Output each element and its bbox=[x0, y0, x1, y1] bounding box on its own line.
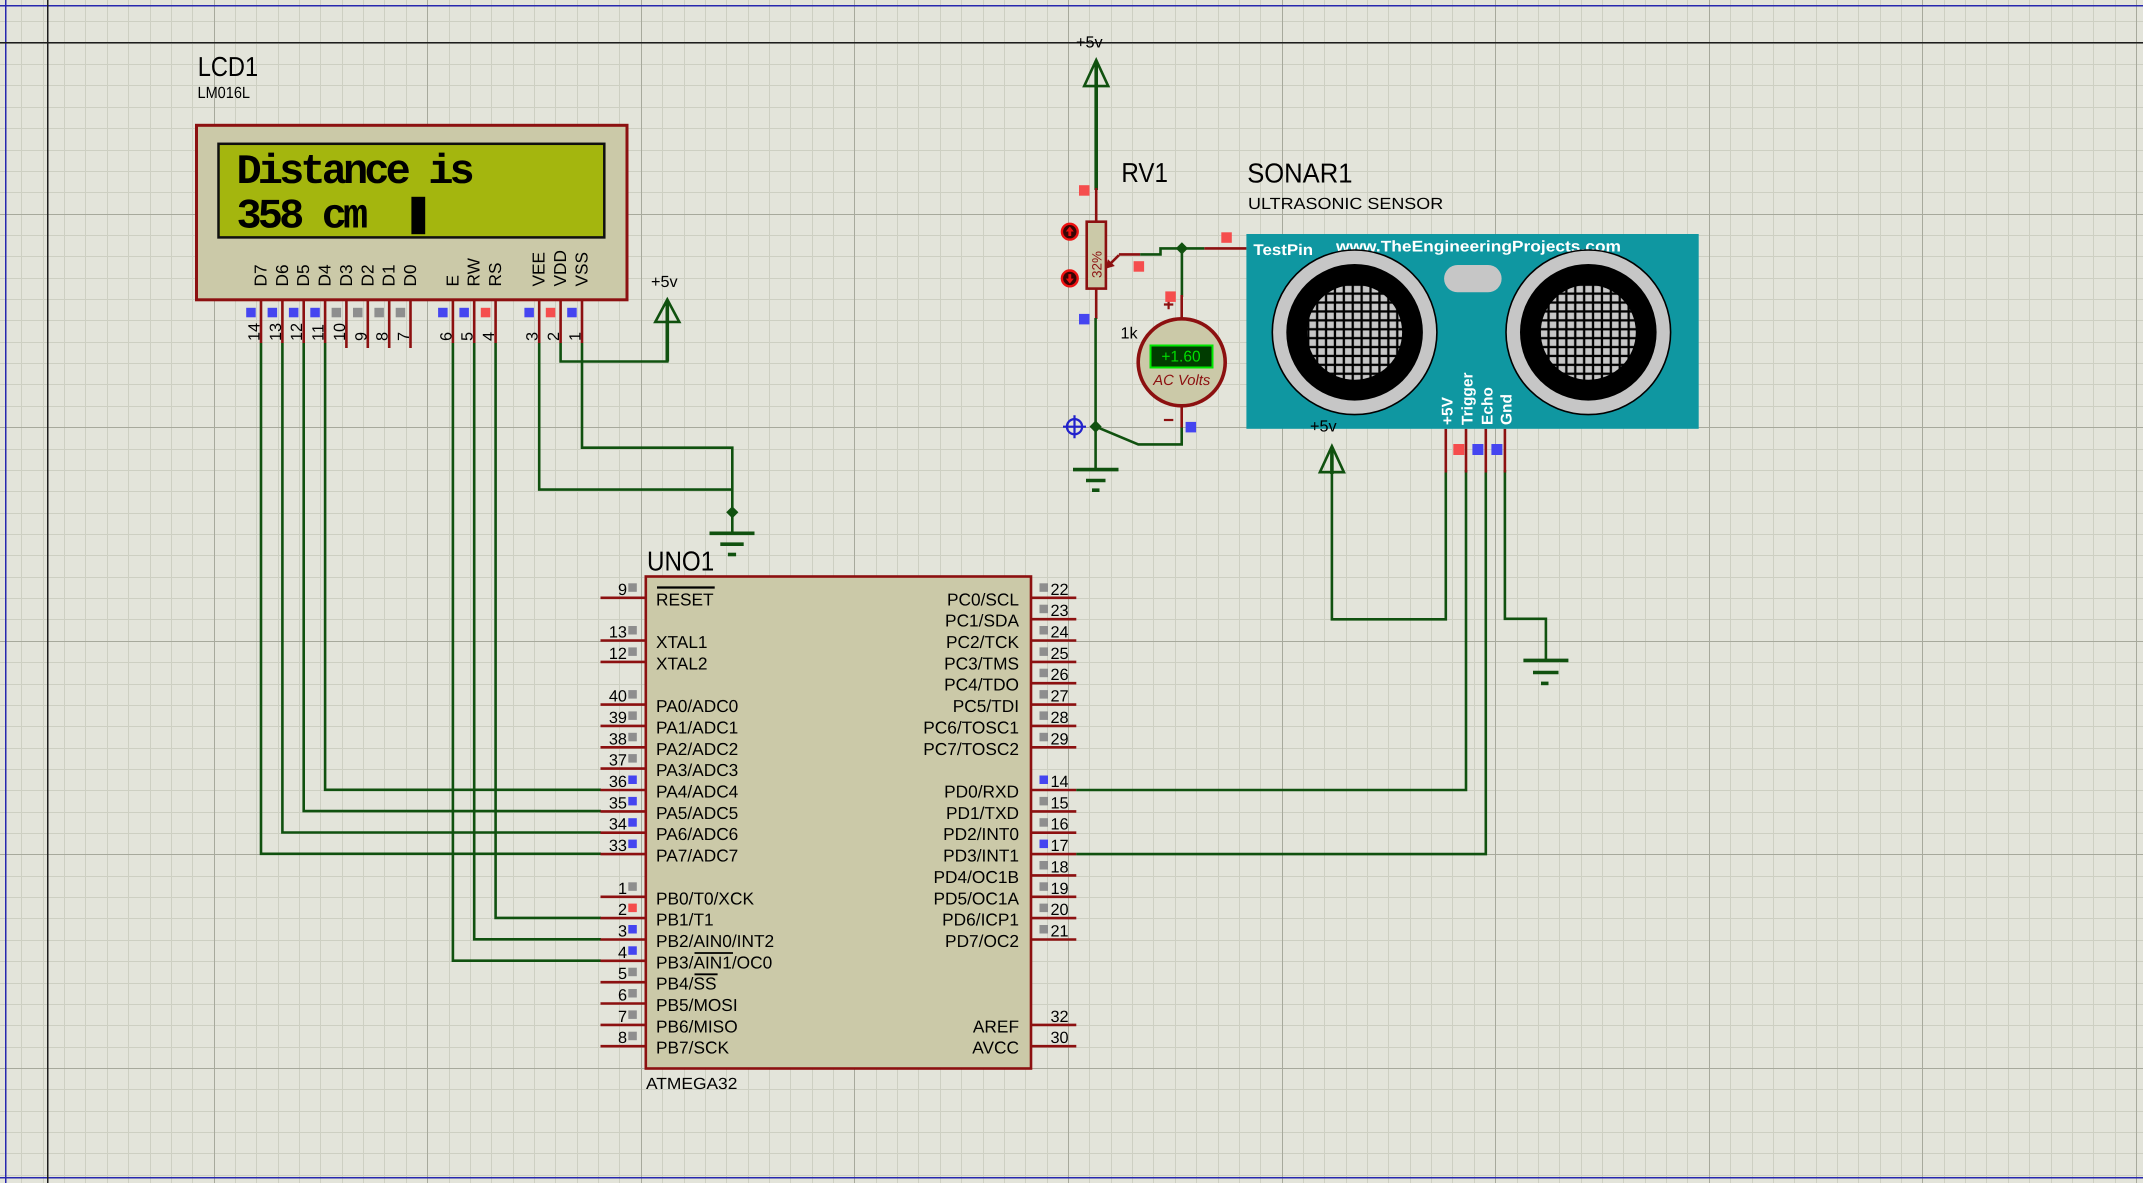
svg-text:2: 2 bbox=[545, 332, 563, 341]
svg-text:PC4/TDO: PC4/TDO bbox=[944, 675, 1019, 695]
RV1 wiper arrow bbox=[1105, 254, 1140, 269]
ground (LCD net) bbox=[710, 533, 755, 554]
indicator square RV1 bottom bbox=[1079, 314, 1090, 325]
svg-text:1k: 1k bbox=[1121, 325, 1139, 343]
svg-text:1: 1 bbox=[567, 332, 585, 341]
svg-text:PC5/TDI: PC5/TDI bbox=[953, 696, 1019, 716]
TestPin stub bbox=[1204, 247, 1246, 250]
svg-text:20: 20 bbox=[1051, 901, 1069, 919]
sonar pin stubs bbox=[1446, 429, 1505, 473]
voltmeter body bbox=[1138, 319, 1225, 406]
svg-text:27: 27 bbox=[1051, 688, 1069, 706]
svg-text:9: 9 bbox=[352, 332, 370, 341]
sheet border blue lines bbox=[5, 0, 7, 1183]
svg-text:PC2/TCK: PC2/TCK bbox=[946, 632, 1019, 652]
indicator square Echo bbox=[1472, 444, 1483, 455]
svg-text:11: 11 bbox=[310, 324, 328, 341]
svg-text:2: 2 bbox=[618, 901, 627, 919]
svg-text:PD4/OC1B: PD4/OC1B bbox=[934, 867, 1019, 887]
voltmeter display bbox=[1151, 346, 1213, 368]
sonar pin labels bbox=[1439, 372, 1515, 425]
svg-text:3: 3 bbox=[618, 923, 627, 941]
svg-text:7: 7 bbox=[618, 1008, 627, 1026]
svg-text:12: 12 bbox=[288, 323, 306, 341]
right pin numbers bbox=[1051, 581, 1069, 1047]
svg-text:PC7/TOSC2: PC7/TOSC2 bbox=[923, 739, 1019, 759]
wire sonar Echo to PD3/INT1 bbox=[1076, 470, 1486, 854]
svg-text:D2: D2 bbox=[357, 264, 377, 286]
RV1 down adjust button bbox=[1062, 271, 1078, 287]
right pin names bbox=[923, 589, 1019, 1057]
svg-text:PB1/T1: PB1/T1 bbox=[656, 910, 714, 930]
svg-text:+1.60: +1.60 bbox=[1161, 349, 1201, 366]
svg-text:E: E bbox=[442, 275, 462, 287]
left transducer bbox=[1272, 250, 1437, 415]
svg-text:Trigger: Trigger bbox=[1460, 372, 1477, 425]
svg-text:VEE: VEE bbox=[529, 252, 549, 287]
microcontroller UNO1 body (ATMEGA32) bbox=[646, 577, 1031, 1069]
svg-text:D7: D7 bbox=[251, 264, 271, 286]
svg-text:5: 5 bbox=[459, 332, 477, 341]
svg-text:PD6/ICP1: PD6/ICP1 bbox=[942, 910, 1019, 930]
svg-text:XTAL1: XTAL1 bbox=[656, 632, 708, 652]
svg-text:33: 33 bbox=[609, 837, 627, 855]
indicator square voltmeter minus bbox=[1186, 422, 1197, 433]
indicator square voltmeter plus bbox=[1165, 291, 1176, 302]
voltmeter bottom stub bbox=[1180, 406, 1183, 429]
svg-text:26: 26 bbox=[1051, 666, 1069, 684]
right transducer bbox=[1506, 250, 1671, 415]
LCD pin state squares bbox=[246, 308, 577, 318]
pin RESET (overline) bbox=[656, 588, 774, 1058]
svg-text:+5V: +5V bbox=[1439, 396, 1456, 425]
svg-text:Echo: Echo bbox=[1479, 387, 1496, 425]
svg-text:PB2/AIN0/INT2: PB2/AIN0/INT2 bbox=[656, 931, 774, 951]
svg-text:RESET: RESET bbox=[656, 589, 714, 609]
svg-text:13: 13 bbox=[267, 323, 285, 341]
svg-text:D3: D3 bbox=[336, 264, 356, 286]
svg-text:+5v: +5v bbox=[651, 273, 678, 291]
svg-text:23: 23 bbox=[1051, 602, 1069, 620]
svg-text:PA5/ADC5: PA5/ADC5 bbox=[656, 803, 738, 823]
wire sonar +5V pin to +5v arrow bbox=[1332, 470, 1446, 619]
wire LCD VEE to ground net bbox=[539, 343, 732, 490]
svg-text:18: 18 bbox=[1051, 858, 1069, 876]
indicator square TestPin bbox=[1221, 232, 1232, 243]
svg-text:4: 4 bbox=[480, 332, 498, 341]
svg-text:3: 3 bbox=[524, 332, 542, 341]
svg-text:ATMEGA32: ATMEGA32 bbox=[646, 1075, 737, 1093]
voltmeter minus sign bbox=[1164, 419, 1173, 421]
wire RV1 bottom to ground node bbox=[1094, 318, 1097, 469]
svg-text:D5: D5 bbox=[293, 264, 313, 286]
svg-text:LCD1: LCD1 bbox=[198, 51, 258, 82]
svg-text:38: 38 bbox=[609, 730, 627, 748]
svg-text:7: 7 bbox=[395, 332, 413, 341]
wire LCD D5 to PA5 bbox=[304, 343, 601, 811]
svg-text:14: 14 bbox=[1051, 773, 1069, 791]
svg-text:35: 35 bbox=[609, 794, 627, 812]
wire sonar Gnd to ground bbox=[1505, 470, 1546, 660]
svg-text:16: 16 bbox=[1051, 816, 1069, 834]
power +5v (sonar) bbox=[1310, 418, 1344, 474]
LCD cursor block bbox=[411, 197, 425, 234]
svg-text:Distance is: Distance is bbox=[237, 148, 473, 196]
svg-text:D6: D6 bbox=[272, 264, 292, 286]
svg-text:UNO1: UNO1 bbox=[647, 545, 714, 576]
junction TestPin node bbox=[1176, 242, 1188, 254]
svg-text:15: 15 bbox=[1051, 794, 1069, 812]
RV1 bottom pin stub bbox=[1095, 289, 1098, 319]
svg-text:12: 12 bbox=[609, 645, 627, 663]
svg-text:14: 14 bbox=[246, 323, 264, 341]
svg-text:PD3/INT1: PD3/INT1 bbox=[943, 846, 1019, 866]
svg-text:4: 4 bbox=[618, 944, 627, 962]
svg-text:1: 1 bbox=[618, 880, 627, 898]
svg-text:358 cm: 358 cm bbox=[237, 192, 368, 240]
junction RV1 ground node bbox=[1090, 420, 1102, 432]
svg-text:32: 32 bbox=[1051, 1008, 1069, 1026]
svg-text:21: 21 bbox=[1051, 923, 1069, 941]
right pin stubs bbox=[1031, 598, 1076, 1046]
svg-text:RW: RW bbox=[464, 257, 484, 286]
svg-text:13: 13 bbox=[609, 624, 627, 642]
svg-text:PC6/TOSC1: PC6/TOSC1 bbox=[923, 717, 1019, 737]
left pin numbers bbox=[609, 581, 627, 1047]
LCD pin numbers bbox=[246, 323, 585, 341]
svg-text:AC Volts: AC Volts bbox=[1152, 373, 1211, 389]
wire RV1 wiper to TestPin node bbox=[1140, 248, 1182, 254]
svg-text:PB3/AIN1/OC0: PB3/AIN1/OC0 bbox=[656, 952, 772, 972]
svg-text:PA4/ADC4: PA4/ADC4 bbox=[656, 782, 739, 802]
indicator square RV1 top bbox=[1079, 185, 1090, 196]
svg-text:VDD: VDD bbox=[550, 250, 570, 287]
svg-text:D0: D0 bbox=[400, 264, 420, 286]
svg-text:PC1/SDA: PC1/SDA bbox=[945, 611, 1019, 631]
LCD screen bbox=[219, 144, 605, 238]
sheet frame black lines bbox=[47, 0, 49, 1183]
svg-text:PB5/MOSI: PB5/MOSI bbox=[656, 995, 738, 1015]
indicator square RV1 wiper bbox=[1134, 261, 1145, 272]
svg-text:10: 10 bbox=[331, 323, 349, 341]
svg-text:PA3/ADC3: PA3/ADC3 bbox=[656, 760, 738, 780]
svg-text:PA2/ADC2: PA2/ADC2 bbox=[656, 739, 738, 759]
RV1 up adjust button bbox=[1062, 224, 1078, 240]
wire LCD D7 to PA7 bbox=[261, 343, 601, 854]
svg-text:PC3/TMS: PC3/TMS bbox=[944, 653, 1019, 673]
wire LCD D6 to PA6 bbox=[282, 343, 601, 833]
svg-text:34: 34 bbox=[609, 816, 627, 834]
svg-text:Gnd: Gnd bbox=[1498, 394, 1515, 425]
svg-text:+5v: +5v bbox=[1076, 34, 1103, 52]
power +5v (RV1 top) bbox=[1076, 34, 1108, 191]
potentiometer RV1 body bbox=[1087, 222, 1106, 289]
svg-text:ULTRASONIC SENSOR: ULTRASONIC SENSOR bbox=[1248, 195, 1443, 213]
svg-text:29: 29 bbox=[1051, 730, 1069, 748]
wire voltmeter minus to ground node bbox=[1096, 427, 1182, 445]
wire LCD E to PB3 bbox=[453, 343, 601, 961]
svg-text:9: 9 bbox=[618, 581, 627, 599]
svg-text:19: 19 bbox=[1051, 880, 1069, 898]
wire node to voltmeter plus bbox=[1181, 248, 1184, 297]
svg-text:22: 22 bbox=[1051, 581, 1069, 599]
LCD LCD1 body bbox=[197, 125, 628, 299]
svg-text:8: 8 bbox=[374, 332, 392, 341]
ground (RV1) bbox=[1073, 470, 1119, 491]
svg-text:24: 24 bbox=[1051, 624, 1069, 642]
indicator square Gnd bbox=[1491, 444, 1502, 455]
svg-text:SONAR1: SONAR1 bbox=[1247, 158, 1352, 189]
indicator square Trigger bbox=[1453, 444, 1464, 455]
origin marker crosshair bbox=[1063, 415, 1086, 438]
svg-text:PD0/RXD: PD0/RXD bbox=[944, 782, 1019, 802]
wire LCD VDD to +5v bbox=[561, 320, 668, 362]
svg-text:RS: RS bbox=[485, 262, 505, 286]
left pin state squares bbox=[628, 583, 637, 1040]
svg-text:32%: 32% bbox=[1090, 251, 1105, 278]
wire LCD RW to PB2 bbox=[474, 343, 601, 939]
svg-text:RV1: RV1 bbox=[1121, 157, 1168, 188]
svg-text:AVCC: AVCC bbox=[972, 1038, 1019, 1058]
svg-text:PB0/T0/XCK: PB0/T0/XCK bbox=[656, 888, 754, 908]
svg-text:D4: D4 bbox=[315, 264, 335, 286]
right pin state squares bbox=[1040, 583, 1049, 933]
voltmeter top stub bbox=[1180, 295, 1183, 320]
svg-text:AREF: AREF bbox=[973, 1016, 1019, 1036]
svg-text:6: 6 bbox=[618, 987, 627, 1005]
wire sonar Trigger to PD0/RXD bbox=[1076, 470, 1466, 790]
LCD pin stubs bbox=[261, 299, 582, 348]
wire LCD VSS to ground bbox=[582, 343, 732, 533]
svg-text:30: 30 bbox=[1051, 1029, 1069, 1047]
ground (sonar) bbox=[1523, 660, 1568, 683]
svg-text:37: 37 bbox=[609, 752, 627, 770]
svg-text:PB6/MISO: PB6/MISO bbox=[656, 1016, 738, 1036]
svg-text:36: 36 bbox=[609, 773, 627, 791]
svg-text:PA7/ADC7: PA7/ADC7 bbox=[656, 846, 738, 866]
svg-text:6: 6 bbox=[437, 332, 455, 341]
wire LCD RS to PB1 bbox=[496, 343, 601, 918]
LCD pin name labels bbox=[251, 250, 592, 287]
svg-text:5: 5 bbox=[618, 965, 627, 983]
svg-text:40: 40 bbox=[609, 688, 627, 706]
svg-text:+5v: +5v bbox=[1310, 418, 1337, 436]
svg-text:17: 17 bbox=[1051, 837, 1069, 855]
wire LCD D4 to PA4 bbox=[325, 343, 601, 790]
svg-text:25: 25 bbox=[1051, 645, 1069, 663]
svg-text:PB4/SS: PB4/SS bbox=[656, 974, 717, 994]
svg-text:PA0/ADC0: PA0/ADC0 bbox=[656, 696, 738, 716]
left pin stubs bbox=[601, 598, 646, 1046]
svg-text:LM016L: LM016L bbox=[198, 84, 251, 102]
svg-text:PC0/SCL: PC0/SCL bbox=[947, 589, 1019, 609]
svg-text:PD1/TXD: PD1/TXD bbox=[946, 803, 1019, 823]
crystal oscillator pill bbox=[1444, 265, 1502, 292]
svg-text:28: 28 bbox=[1051, 709, 1069, 727]
junction VSS/VEE ground node bbox=[726, 506, 738, 518]
svg-text:VSS: VSS bbox=[572, 252, 592, 287]
ultrasonic sensor SONAR1 body bbox=[1246, 234, 1698, 429]
voltmeter plus sign bbox=[1164, 300, 1173, 309]
svg-text:TestPin: TestPin bbox=[1253, 242, 1313, 259]
svg-text:39: 39 bbox=[609, 709, 627, 727]
svg-text:PB7/SCK: PB7/SCK bbox=[656, 1038, 729, 1058]
svg-text:XTAL2: XTAL2 bbox=[656, 653, 708, 673]
wire junction to TestPin stub bbox=[1182, 247, 1204, 250]
RV1 top pin stub bbox=[1095, 188, 1098, 222]
svg-text:PA1/ADC1: PA1/ADC1 bbox=[656, 717, 738, 737]
svg-text:PA6/ADC6: PA6/ADC6 bbox=[656, 824, 738, 844]
svg-text:PD2/INT0: PD2/INT0 bbox=[943, 824, 1019, 844]
svg-text:8: 8 bbox=[618, 1029, 627, 1047]
svg-text:PD5/OC1A: PD5/OC1A bbox=[934, 888, 1020, 908]
svg-text:D1: D1 bbox=[379, 264, 399, 286]
power +5v (LCD VDD) bbox=[651, 273, 679, 362]
svg-text:PD7/OC2: PD7/OC2 bbox=[945, 931, 1019, 951]
